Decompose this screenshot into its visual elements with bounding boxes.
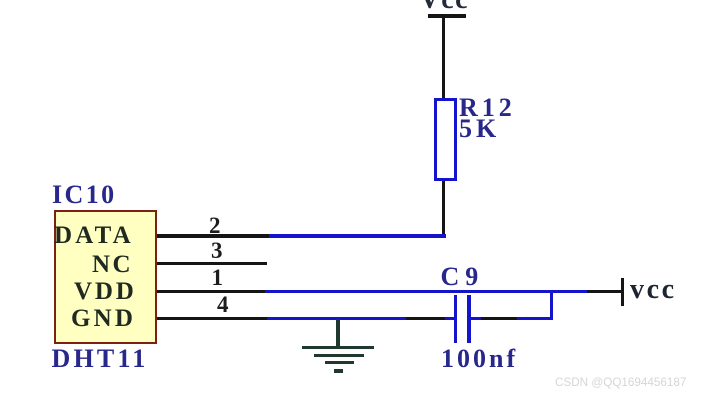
ground stem [336, 319, 340, 347]
wire GND black to C9 [406, 317, 445, 320]
wire black segment right of C9 [481, 317, 517, 320]
power symbol Vcc (top) label [420, 0, 470, 14]
value label 100nf [441, 346, 518, 372]
wire R12 to DATA node [442, 181, 445, 237]
ground bar 2 [314, 354, 364, 357]
wire GND pin4 blue [267, 317, 406, 320]
label C9 [441, 264, 485, 290]
wire Vcc to R12 [442, 16, 445, 99]
power symbol vcc (right) bar [621, 278, 624, 306]
wire stub to C9 left plate [445, 317, 454, 320]
value label 5K [459, 116, 500, 142]
IC10 body [54, 210, 157, 345]
wire DATA pin2 black [157, 234, 269, 237]
wire NC pin3 [157, 262, 267, 265]
wire VDD pin1 blue [265, 290, 587, 293]
resistor R12 [434, 98, 457, 181]
capacitor C9 right plate [467, 295, 471, 343]
capacitor C9 left plate [454, 295, 458, 343]
ground bar 4 [334, 369, 343, 372]
ground bar 1 [302, 346, 374, 349]
wire VDD pin1 black [157, 290, 265, 293]
wire stub from C9 right plate blue [471, 317, 481, 320]
label IC10 [52, 182, 117, 208]
watermark [555, 376, 686, 389]
pin name DATA [54, 223, 134, 248]
wire riser blue [550, 290, 553, 321]
pin number 2 [209, 214, 221, 237]
pin number 4 [217, 293, 229, 316]
wire blue segment to riser [517, 317, 553, 320]
pin number 1 [212, 266, 224, 289]
pin name GND [71, 306, 136, 331]
pin number 3 [211, 239, 223, 262]
power symbol Vcc (top) bar [428, 14, 466, 17]
ground bar 3 [325, 361, 354, 364]
pin name NC [92, 252, 133, 277]
power label vcc (right) [630, 276, 677, 304]
wire VDD to vcc black [587, 290, 622, 293]
value label R12 [459, 95, 516, 121]
label DHT11 [52, 346, 149, 372]
wire GND pin4 black [157, 317, 267, 320]
wire DATA pin2 blue [269, 234, 446, 237]
pin name VDD [74, 279, 137, 304]
